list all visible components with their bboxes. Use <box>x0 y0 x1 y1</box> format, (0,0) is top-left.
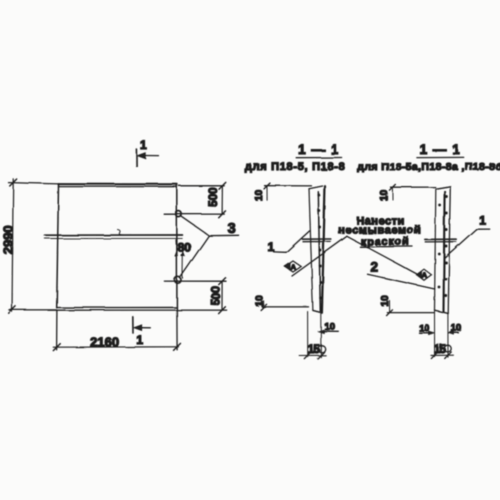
note leader to left diamond <box>292 236 347 276</box>
section B dim 150 <box>431 352 454 359</box>
section A dim 150 <box>299 352 326 359</box>
svg-text:10: 10 <box>324 322 335 333</box>
svg-text:10: 10 <box>255 295 266 307</box>
svg-text:2990: 2990 <box>1 225 16 254</box>
section B strip outline <box>435 186 451 313</box>
svg-text:3: 3 <box>228 221 236 237</box>
note leader to right diamond <box>347 236 421 276</box>
section A extension below strip right <box>320 313 322 357</box>
section A anchor dots <box>317 194 322 300</box>
dimension 500 top right <box>164 182 226 217</box>
svg-text:10: 10 <box>419 323 430 334</box>
panel bottom edge <box>48 308 177 311</box>
svg-text:1 — 1: 1 — 1 <box>298 142 339 157</box>
dimension 2990 <box>9 179 59 313</box>
label 2 leader <box>368 274 435 289</box>
section A dim 10 bottom-left <box>261 301 267 310</box>
section B extension below strip right <box>447 314 449 357</box>
svg-text:500: 500 <box>208 188 220 207</box>
panel right edge <box>176 184 178 310</box>
svg-text:1: 1 <box>479 214 486 228</box>
section B text 150 <box>434 344 451 356</box>
svg-text:А: А <box>291 263 297 272</box>
leader lines to label 3 <box>180 216 239 278</box>
dimension 500 bottom right <box>164 278 226 314</box>
panel middle joint line <box>45 230 183 239</box>
svg-text:10: 10 <box>380 295 391 307</box>
section A bottom ext line <box>262 306 309 308</box>
section B label 1 leader <box>445 229 490 258</box>
svg-text:10: 10 <box>379 189 390 201</box>
section A header 1-1 <box>296 142 341 158</box>
svg-text:80: 80 <box>178 240 192 254</box>
dimension 80 <box>175 240 185 278</box>
svg-text:2160: 2160 <box>90 334 119 349</box>
paint mark diamond B <box>417 269 432 280</box>
section A top ext line <box>265 185 312 187</box>
lifting loop upper <box>176 211 182 217</box>
section B dim 10 right <box>448 331 459 335</box>
section B top ext line <box>391 186 436 188</box>
section A dim 10 top <box>264 183 270 200</box>
lifting loop lower <box>175 277 181 283</box>
svg-text:10: 10 <box>254 189 265 201</box>
svg-text:500: 500 <box>211 286 223 305</box>
svg-text:1: 1 <box>136 333 143 347</box>
section A break line <box>303 239 331 242</box>
section cut mark 1 top <box>136 149 158 166</box>
svg-text:несмываемой: несмываемой <box>338 224 421 236</box>
svg-text:10: 10 <box>451 323 462 334</box>
svg-text:2: 2 <box>371 259 379 274</box>
section A extension below strip left <box>307 312 309 357</box>
note text kraskoy <box>360 236 413 248</box>
section A strip outline <box>309 186 325 313</box>
section B header 1-1 <box>417 142 464 157</box>
section B bottom ext line <box>387 312 434 314</box>
dimension 2160 <box>53 311 180 351</box>
section A dim 10 thickness <box>318 329 339 333</box>
section A text 150 <box>308 344 325 356</box>
section B dim 10 bottom-left <box>387 301 393 316</box>
section B dim 10 top <box>389 184 395 199</box>
svg-text:1: 1 <box>140 138 147 152</box>
section A label 1 leader <box>274 231 310 252</box>
section B dim 10 left <box>419 331 435 335</box>
section B anchor dots <box>438 195 448 297</box>
panel left edge <box>57 184 59 308</box>
svg-text:для П18-5, П18-8: для П18-5, П18-8 <box>245 161 346 173</box>
svg-text:1 — 1: 1 — 1 <box>420 142 461 157</box>
section B extension below strip left <box>434 311 436 357</box>
paint mark diamond A left <box>285 261 301 272</box>
panel top edge <box>58 184 177 187</box>
svg-text:для П18-5а,П18-8а ,П18-8б: для П18-5а,П18-8а ,П18-8б <box>357 161 500 173</box>
svg-text:А: А <box>422 271 428 280</box>
section cut mark 1 bottom <box>133 317 151 333</box>
section B break line <box>425 239 456 242</box>
svg-text:1: 1 <box>268 240 275 254</box>
